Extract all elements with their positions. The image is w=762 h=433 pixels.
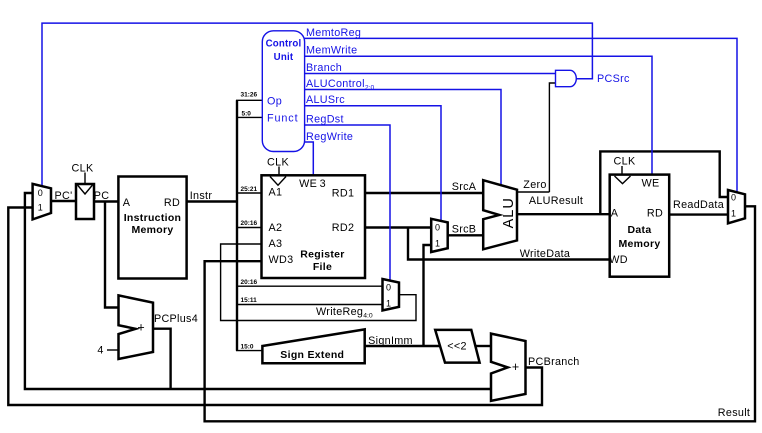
alu U-ALU [483,180,517,249]
svg-text:RD2: RD2 [332,222,355,234]
wire ReadData (Data Memory RD to result mux input 1) [669,213,728,215]
wire ALUResult branch over Data Memory to result mux input 0 [600,151,728,214]
wire RegDst (control to RegDst mux select) [305,125,390,281]
svg-text:0: 0 [731,192,736,202]
svg-text:Instr: Instr [190,190,213,202]
wire Result (MemtoReg mux output, feedback to WD3) [205,206,755,421]
value 1 (PC mux) [38,203,43,213]
wire PCBranch (adder output, feedback to PC mux input 1) [8,208,542,406]
svg-text:CLK: CLK [72,163,94,175]
wire CLK tick PC register [84,173,86,185]
svg-text:Sign Extend: Sign Extend [280,349,344,361]
label Control Unit [266,39,302,64]
svg-text:Instruction: Instruction [124,212,182,224]
label SrcA [452,181,477,193]
mux ALUSrc 0/1 [431,219,448,252]
svg-text:1: 1 [731,208,736,218]
svg-text:WriteData: WriteData [520,248,571,260]
control unit U-CTRL [262,31,304,152]
svg-text:ALUControl2:0: ALUControl2:0 [306,78,374,92]
wire Funct field 5:0 into Control Unit [236,116,262,118]
value 0 (MemtoReg mux) [731,192,736,202]
svg-text:1: 1 [435,239,440,249]
svg-text:A2: A2 [269,222,283,234]
wire CLK tick Data Memory [621,166,623,175]
label Data Memory [618,224,660,250]
label shift <<2 [447,341,467,353]
svg-text:WD3: WD3 [269,254,294,266]
pin WE (Data Memory) [642,177,660,189]
wire PCPlus4 (adder output down to feedback rail) [153,329,171,389]
wire ALUControl (control to ALU) [305,90,501,186]
wire RegWrite (control to Register File WE3) [305,142,314,175]
svg-text:A: A [611,207,619,219]
svg-text:RD1: RD1 [332,187,355,199]
shifter left-shift-2 [435,330,479,363]
block Instruction Memory [118,177,186,279]
bus Instr vertical [236,100,238,350]
svg-text:0: 0 [386,282,391,292]
label SignImm [368,335,413,347]
wire SignImm branch up to SrcB mux input 1 [424,245,432,346]
wire WriteReg loop (RegDst mux output back to A3) [221,244,416,321]
svg-text:A1: A1 [269,186,283,198]
label WriteReg 4:0 [316,306,373,320]
svg-text:RegDst: RegDst [306,113,344,125]
svg-text:Register: Register [300,249,344,261]
value 25:21 [241,186,258,193]
wire SignImm (Sign Extend output to shifter) [365,345,440,347]
wire RD1 / SrcA [365,192,483,194]
mux RegDst 0/1 [383,279,400,310]
wire WriteData (RD2 tap to Data Memory WD) [408,228,610,260]
svg-text:MemtoReg: MemtoReg [306,27,361,39]
value 0 (RegDst mux) [386,282,391,292]
pin RD (Data Memory) [647,207,663,219]
svg-text:Op: Op [267,96,282,108]
label WriteData [520,248,571,260]
svg-text:5:0: 5:0 [242,110,252,117]
wire Branch (control to AND gate) [305,73,556,75]
pin RD (Instruction Memory) [164,197,180,209]
value 1 (ALUSrc mux) [435,239,440,249]
label PCBranch [528,356,580,368]
label Sign Extend [280,349,344,361]
label ALUControl 2:0 [306,78,374,92]
svg-text:Result: Result [718,407,750,419]
wire CLK tick Register File [278,167,280,176]
block Register File [262,175,366,278]
wire Op field 31:26 into Control Unit [236,99,262,101]
value 0 (PC mux) [38,188,43,198]
pin Op [267,96,282,108]
label MemtoReg [306,27,361,39]
svg-text:31:26: 31:26 [241,92,258,99]
label CLK (Register File) [267,156,289,168]
label ReadData [673,199,724,211]
label Zero [523,179,546,191]
pin WD (Data Memory) [609,254,628,266]
and gate PCSrc AND [556,70,577,86]
value 20:16 (mux) [241,279,258,286]
svg-text:<<2: <<2 [447,341,467,353]
value 31:26 [241,92,258,99]
wire MemWrite (control to Data Memory WE) [305,56,652,174]
value 0 (ALUSrc mux) [435,223,440,233]
wire RD2 to SrcB mux input 0 [365,226,431,228]
wire field 20:16 to RegDst mux input 0 [236,285,383,287]
wire PCSrc (AND gate output, over the top to PC mux select) [42,23,592,186]
svg-text:PCPlus4: PCPlus4 [154,313,198,325]
wire PCnext (mux output to PC register) [51,200,76,202]
wire field 15:0 to Sign Extend [236,350,262,352]
pin A3 [269,238,283,250]
svg-text:File: File [313,261,332,273]
wire PC tap down to PCPlus4 adder input [105,202,119,308]
svg-text:Data: Data [628,224,652,236]
label Register File [300,249,344,273]
svg-text:A: A [123,197,131,209]
pin RD1 [332,187,355,199]
svg-text:Memory: Memory [618,238,660,250]
svg-text:ALUResult: ALUResult [529,195,583,207]
svg-text:CLK: CLK [267,156,289,168]
svg-text:Control: Control [266,39,302,50]
svg-text:25:21: 25:21 [241,186,258,193]
pin A (Instruction Memory) [123,197,131,209]
svg-text:15:11: 15:11 [241,297,258,304]
svg-text:Funct: Funct [267,112,299,124]
svg-text:PCSrc: PCSrc [597,73,630,85]
label PCPlus4 [154,313,198,325]
wire constant 4 into PCPlus4 adder [107,349,119,351]
value 4 (constant) [97,345,103,357]
wire Zero (ALU to AND gate) [517,83,556,192]
svg-text:WE 3: WE 3 [299,178,326,190]
register PC [76,184,94,219]
svg-text:Unit: Unit [274,52,294,63]
svg-text:ALU: ALU [501,197,517,228]
svg-text:RegWrite: RegWrite [306,131,353,143]
value 1 (MemtoReg mux) [731,208,736,218]
label ALUResult [529,195,583,207]
svg-text:ReadData: ReadData [673,199,724,211]
mux PC-source 0/1 [33,184,51,220]
pin WE3 [299,178,326,190]
adder PCBranch [491,334,526,401]
svg-text:1: 1 [38,203,43,213]
label CLK (PC register) [72,163,94,175]
wire field 25:21 to A1 [236,192,262,194]
wire PC (PC register to Instruction Memory A) [94,200,118,202]
wire PCPlus4 feedback rail to PC mux input 0 and PCBranch adder [25,193,491,389]
svg-text:RD: RD [647,207,663,219]
label Result [718,407,750,419]
label RegDst [306,113,344,125]
pin Funct [267,112,299,124]
pin RD2 [332,222,355,234]
pin A2 [269,222,283,234]
wire SrcB (ALUSrc mux output to ALU) [448,234,484,236]
label ALU [501,197,517,228]
wire field 20:16 to A2 [236,227,262,229]
svg-text:PCBranch: PCBranch [528,356,580,368]
svg-text:+: + [512,360,519,374]
svg-text:0: 0 [38,188,43,198]
svg-text:20:16: 20:16 [241,279,258,286]
label SrcB [452,223,477,235]
svg-text:SrcB: SrcB [452,223,477,235]
svg-text:WD: WD [609,254,628,266]
svg-text:RD: RD [164,197,180,209]
svg-text:SignImm: SignImm [368,335,413,347]
label CLK (Data Memory) [614,156,636,168]
value + (PCBranch adder) [512,360,519,374]
adder PCPlus4 [119,295,154,359]
label Instruction Memory [124,212,182,236]
wire ALUResult to Data Memory A [517,213,610,215]
block Sign Extend [262,329,364,363]
svg-text:ALUSrc: ALUSrc [306,94,345,106]
svg-text:Branch: Branch [306,62,342,74]
pin A (Data Memory) [611,207,619,219]
label Branch [306,62,342,74]
pin WD3 [269,254,294,266]
label ALUSrc [306,94,345,106]
label RegWrite [306,131,353,143]
value 1 (RegDst mux) [386,299,391,309]
block Data Memory [610,175,670,277]
value 5:0 [242,110,252,117]
svg-text:MemWrite: MemWrite [306,45,357,57]
pin A1 [269,186,283,198]
svg-text:CLK: CLK [614,156,636,168]
svg-text:PC': PC' [55,190,73,202]
wire shifted offset (shifter to PCBranch adder) [476,345,491,347]
svg-text:15:0: 15:0 [241,343,254,350]
value 15:11 [241,297,258,304]
value 20:16 (A2) [241,220,258,227]
value 15:0 [241,343,254,350]
svg-text:20:16: 20:16 [241,220,258,227]
svg-text:PC: PC [94,190,110,202]
svg-text:Memory: Memory [131,224,173,236]
svg-text:SrcA: SrcA [452,181,477,193]
label PCSrc [597,73,630,85]
wire ALUSrc (control to SrcB mux select) [305,106,441,221]
wire MemtoReg (control to result mux select) [305,38,737,192]
label PC [94,190,110,202]
svg-text:0: 0 [435,223,440,233]
svg-text:A3: A3 [269,238,283,250]
wire Instr (Instruction Memory RD to instruction bus) [187,200,237,202]
label Instr [190,190,213,202]
svg-text:+: + [137,321,144,335]
svg-text:4: 4 [97,345,103,357]
label PC' [55,190,73,202]
wire field 15:11 to RegDst mux input 1 [236,304,383,306]
svg-text:WE: WE [642,177,660,189]
mux MemtoReg 0/1 [728,190,745,223]
value + (PCPlus4 adder) [137,321,144,335]
svg-text:1: 1 [386,299,391,309]
svg-text:Zero: Zero [523,179,546,191]
label MemWrite [306,45,357,57]
